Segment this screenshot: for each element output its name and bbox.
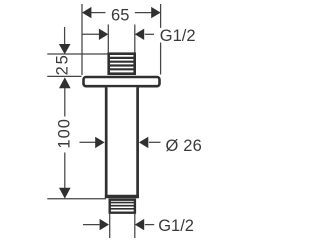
arrowhead diameter-26 left bbox=[95, 137, 104, 148]
leader shaft top G1/2 right bbox=[145, 33, 154, 35]
leader shaft diameter-26 left bbox=[80, 141, 96, 143]
arrowhead 65 left bbox=[82, 7, 91, 18]
svg-text:25: 25 bbox=[54, 53, 72, 75]
dim 25 upper shaft bbox=[64, 27, 66, 44]
arrowhead 25 down bbox=[59, 44, 71, 54]
arrowhead 65 right bbox=[151, 7, 160, 18]
bottom thread extension line left bbox=[109, 214, 111, 238]
bottom thread G1/2 body bbox=[110, 200, 135, 213]
leader shaft bottom G1/2 left bbox=[83, 224, 100, 226]
svg-text:100: 100 bbox=[56, 118, 74, 149]
arrowhead 100 down bbox=[59, 188, 71, 199]
leader shaft top G1/2 left bbox=[82, 33, 99, 35]
bottom thread extension line right bbox=[134, 214, 136, 238]
pipe body bbox=[106, 87, 137, 196]
svg-text:Ø 26: Ø 26 bbox=[166, 137, 202, 155]
dimension line 65 right segment bbox=[135, 12, 152, 14]
leader shaft bottom G1/2 right bbox=[145, 224, 154, 226]
shared shaft below up-arrow (25/100 dim) bbox=[64, 87, 66, 116]
leader shaft diameter-26 right bbox=[149, 141, 161, 143]
extension line thread-top level bbox=[47, 53, 107, 55]
arrowhead top G1/2 left bbox=[99, 29, 108, 40]
thread hatch lines bottom bbox=[111, 203, 135, 209]
label G1/2 top white halo bbox=[158, 28, 200, 43]
arrowhead up (shared 25/100) bbox=[59, 77, 71, 88]
extension line left (65 dim) bbox=[81, 4, 83, 75]
arrowhead bottom G1/2 right bbox=[135, 219, 144, 230]
escutcheon flange bbox=[84, 77, 160, 86]
dimension line 65 left segment bbox=[91, 12, 106, 14]
svg-text:G1/2: G1/2 bbox=[158, 217, 194, 235]
arrowhead diameter-26 right bbox=[139, 137, 148, 148]
arrowhead top G1/2 right bbox=[135, 29, 144, 40]
arrowhead bottom G1/2 left bbox=[100, 219, 109, 230]
svg-text:65: 65 bbox=[111, 7, 129, 25]
thread hatch lines top bbox=[110, 58, 134, 69]
thread extension line top-left bbox=[107, 25, 109, 53]
extension line right (65 dim) bbox=[160, 4, 162, 75]
svg-text:G1/2: G1/2 bbox=[160, 27, 196, 45]
top thread G1/2 body bbox=[109, 54, 135, 74]
thread extension line top-right bbox=[134, 25, 136, 53]
pipe bottom edge bbox=[105, 195, 139, 198]
dim 100 lower shaft bbox=[64, 153, 66, 189]
extension line pipe-bottom level bbox=[47, 198, 106, 200]
extension line flange-top level bbox=[47, 75, 81, 77]
